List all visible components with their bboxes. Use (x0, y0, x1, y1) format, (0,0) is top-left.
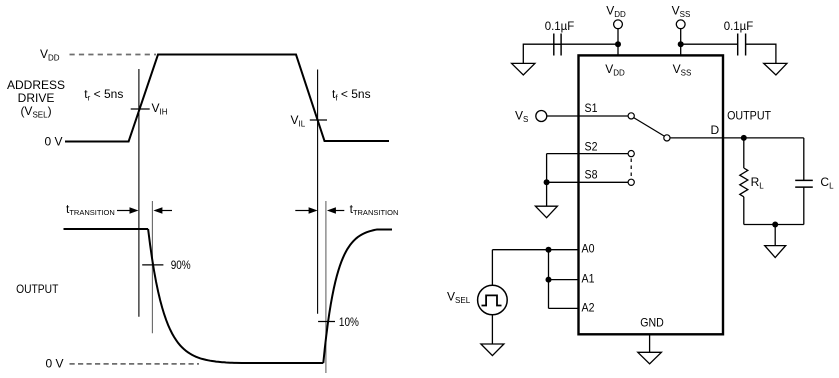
svg-text:OUTPUT: OUTPUT (16, 282, 59, 296)
wire tTRANSITION arrow left-in (117, 210, 131, 212)
wire tTRANSITION arrow right-out (335, 210, 344, 212)
svg-text:0.1µF: 0.1µF (724, 19, 754, 33)
node VIH tick (131, 108, 150, 110)
svg-text:90%: 90% (171, 258, 191, 272)
wire output falling curve (148, 229, 323, 363)
wire A2 input (549, 307, 578, 309)
wire right bypass (681, 43, 738, 45)
svg-text:tf < 5ns: tf < 5ns (332, 87, 371, 103)
node A0 junction (546, 247, 552, 253)
svg-text:D: D (711, 123, 720, 137)
ground right (764, 63, 787, 75)
svg-text:S1: S1 (585, 101, 598, 115)
wire VDD pin (617, 29, 619, 55)
wire output high level left (64, 228, 149, 230)
wire S2 input (547, 153, 628, 155)
node load junction (772, 222, 778, 228)
node switch throw circle S2 (628, 151, 634, 157)
node switch throw circle S8 (628, 179, 634, 185)
svg-text:ADDRESS: ADDRESS (7, 78, 65, 92)
wire S8 input (547, 181, 628, 183)
wire A1 input (549, 279, 578, 281)
op-amp U1 multiplexer box (579, 55, 724, 334)
node VSS terminal (676, 20, 685, 29)
svg-text:0 V: 0 V (46, 357, 64, 371)
svg-text:GND: GND (640, 315, 664, 329)
resistor RL (743, 138, 745, 168)
node 10% tick (318, 321, 335, 323)
node measurement line 1 right (317, 70, 319, 314)
node measurement line 2 left (151, 201, 153, 333)
node 0V dashed reference line (70, 363, 200, 365)
wire left bypass (554, 43, 618, 45)
svg-text:tr < 5ns: tr < 5ns (84, 87, 123, 103)
svg-text:0.1µF: 0.1µF (545, 19, 575, 33)
wire load ground stem (774, 225, 776, 246)
ground GND (638, 352, 662, 364)
wire tTRANSITION arrow right-in (295, 210, 309, 212)
svg-text:A1: A1 (582, 272, 595, 286)
wire VSEL to ground (491, 315, 493, 344)
ground VSEL (481, 344, 504, 356)
node switch throw circle S1 (628, 113, 634, 119)
node VDD dashed reference line (70, 54, 157, 56)
node measurement line 2 right (325, 201, 327, 373)
wire A0 input (492, 249, 577, 251)
wire VSEL to A0 (491, 250, 493, 286)
ground S2/S8 (535, 206, 557, 218)
wire address-drive waveform (65, 55, 389, 142)
node VDD junction (615, 41, 621, 47)
wire S1 input (547, 115, 628, 117)
wire switch arm (634, 118, 665, 136)
wire dashed S2-S8 ellipsis (630, 159, 632, 179)
node A1 junction (546, 277, 552, 283)
svg-text:S2: S2 (585, 140, 598, 154)
wire A0-A2 bus (548, 250, 550, 309)
node output junction (741, 135, 747, 141)
ground left (512, 63, 535, 75)
capacitor C2 0.1uF right (737, 34, 739, 56)
svg-text:A2: A2 (582, 300, 595, 314)
svg-text:10%: 10% (339, 315, 359, 329)
capacitor CL (803, 138, 805, 181)
svg-text:0 V: 0 V (45, 135, 63, 149)
svg-text:DRIVE: DRIVE (18, 91, 55, 105)
node measurement line 1 left (138, 69, 140, 317)
node VIL tick (310, 119, 327, 121)
node VSS junction (678, 41, 684, 47)
svg-text:A0: A0 (582, 242, 595, 256)
wire VSS pin (680, 29, 682, 55)
wire S2/S8 to ground (546, 154, 548, 207)
wire tTRANSITION arrow left-out (161, 210, 172, 212)
node switch pole circle (664, 135, 670, 141)
svg-text:OUTPUT: OUTPUT (727, 109, 772, 123)
node S8 junction (544, 179, 550, 185)
wire load bottom (744, 224, 804, 226)
node 90% tick (142, 264, 163, 266)
svg-text:S8: S8 (585, 168, 598, 182)
node VDD terminal (614, 20, 623, 29)
ground load (765, 246, 786, 258)
wire output rising curve (323, 230, 392, 364)
capacitor C1 0.1uF left (553, 34, 555, 56)
wire D output (670, 137, 804, 139)
wire GND pin (649, 334, 651, 352)
